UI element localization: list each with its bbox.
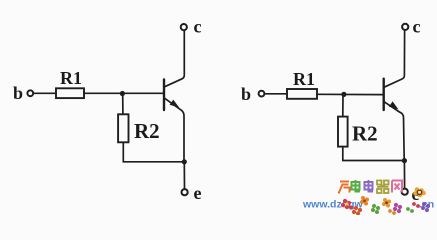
watermark char 2 (green) xyxy=(352,180,361,192)
wire to terminal e left xyxy=(183,162,185,189)
terminal b left circle xyxy=(27,90,33,96)
wire node to R2 top xyxy=(122,94,124,115)
transistor Q2 emitter xyxy=(384,102,404,161)
terminal e left xyxy=(182,189,188,195)
svg-text:b: b xyxy=(241,84,251,104)
wire R2 bottom xyxy=(123,142,184,162)
wire b to R1 right xyxy=(265,93,287,95)
transistor Q1 base bar xyxy=(163,80,165,111)
transistor Q1 emitter arrow xyxy=(170,100,180,108)
orange daisy with dark ring center xyxy=(413,187,426,197)
resistor R2 (right) xyxy=(338,117,348,147)
terminal c right xyxy=(402,24,408,30)
svg-text:c: c xyxy=(413,17,421,37)
wire R2 bottom right xyxy=(343,147,405,161)
wire to terminal e right xyxy=(403,161,405,189)
transistor Q1 collector xyxy=(165,30,185,86)
watermark flower cluster xyxy=(341,187,430,215)
svg-text:R2: R2 xyxy=(352,122,378,146)
resistor R1 (right) xyxy=(287,89,317,99)
wire node to R2 top right xyxy=(342,94,344,116)
svg-text:R1: R1 xyxy=(60,68,82,88)
watermark char 5 (pink) xyxy=(392,181,402,193)
node junction (right emitter node) xyxy=(402,158,407,163)
resistor R2 (left) xyxy=(118,114,128,142)
svg-text:R1: R1 xyxy=(293,69,315,89)
terminal e right xyxy=(402,189,408,195)
transistor Q2 emitter arrow xyxy=(389,101,399,109)
watermark char 1 (orange) xyxy=(339,182,350,194)
node junction (left base node) xyxy=(120,91,125,96)
node junction (right base node) xyxy=(341,92,346,97)
watermark char 4 (olive) xyxy=(377,181,389,194)
resistor R1 (left) xyxy=(56,88,84,98)
node junction (left emitter node) xyxy=(182,159,187,164)
terminal b right circle xyxy=(259,91,265,97)
svg-text:c: c xyxy=(194,17,202,37)
wire R1 to base right xyxy=(317,93,383,95)
wire R1 to base xyxy=(84,92,163,94)
wire b to R1 xyxy=(34,92,56,94)
svg-text:e: e xyxy=(194,183,202,203)
watermark char 3 (purple) xyxy=(365,180,374,192)
transistor Q1 emitter xyxy=(165,98,185,162)
svg-text:R2: R2 xyxy=(134,119,160,143)
svg-text:b: b xyxy=(13,83,23,103)
transistor Q2 base bar xyxy=(383,79,385,110)
terminal c left xyxy=(181,24,187,30)
transistor Q2 collector xyxy=(384,30,404,87)
